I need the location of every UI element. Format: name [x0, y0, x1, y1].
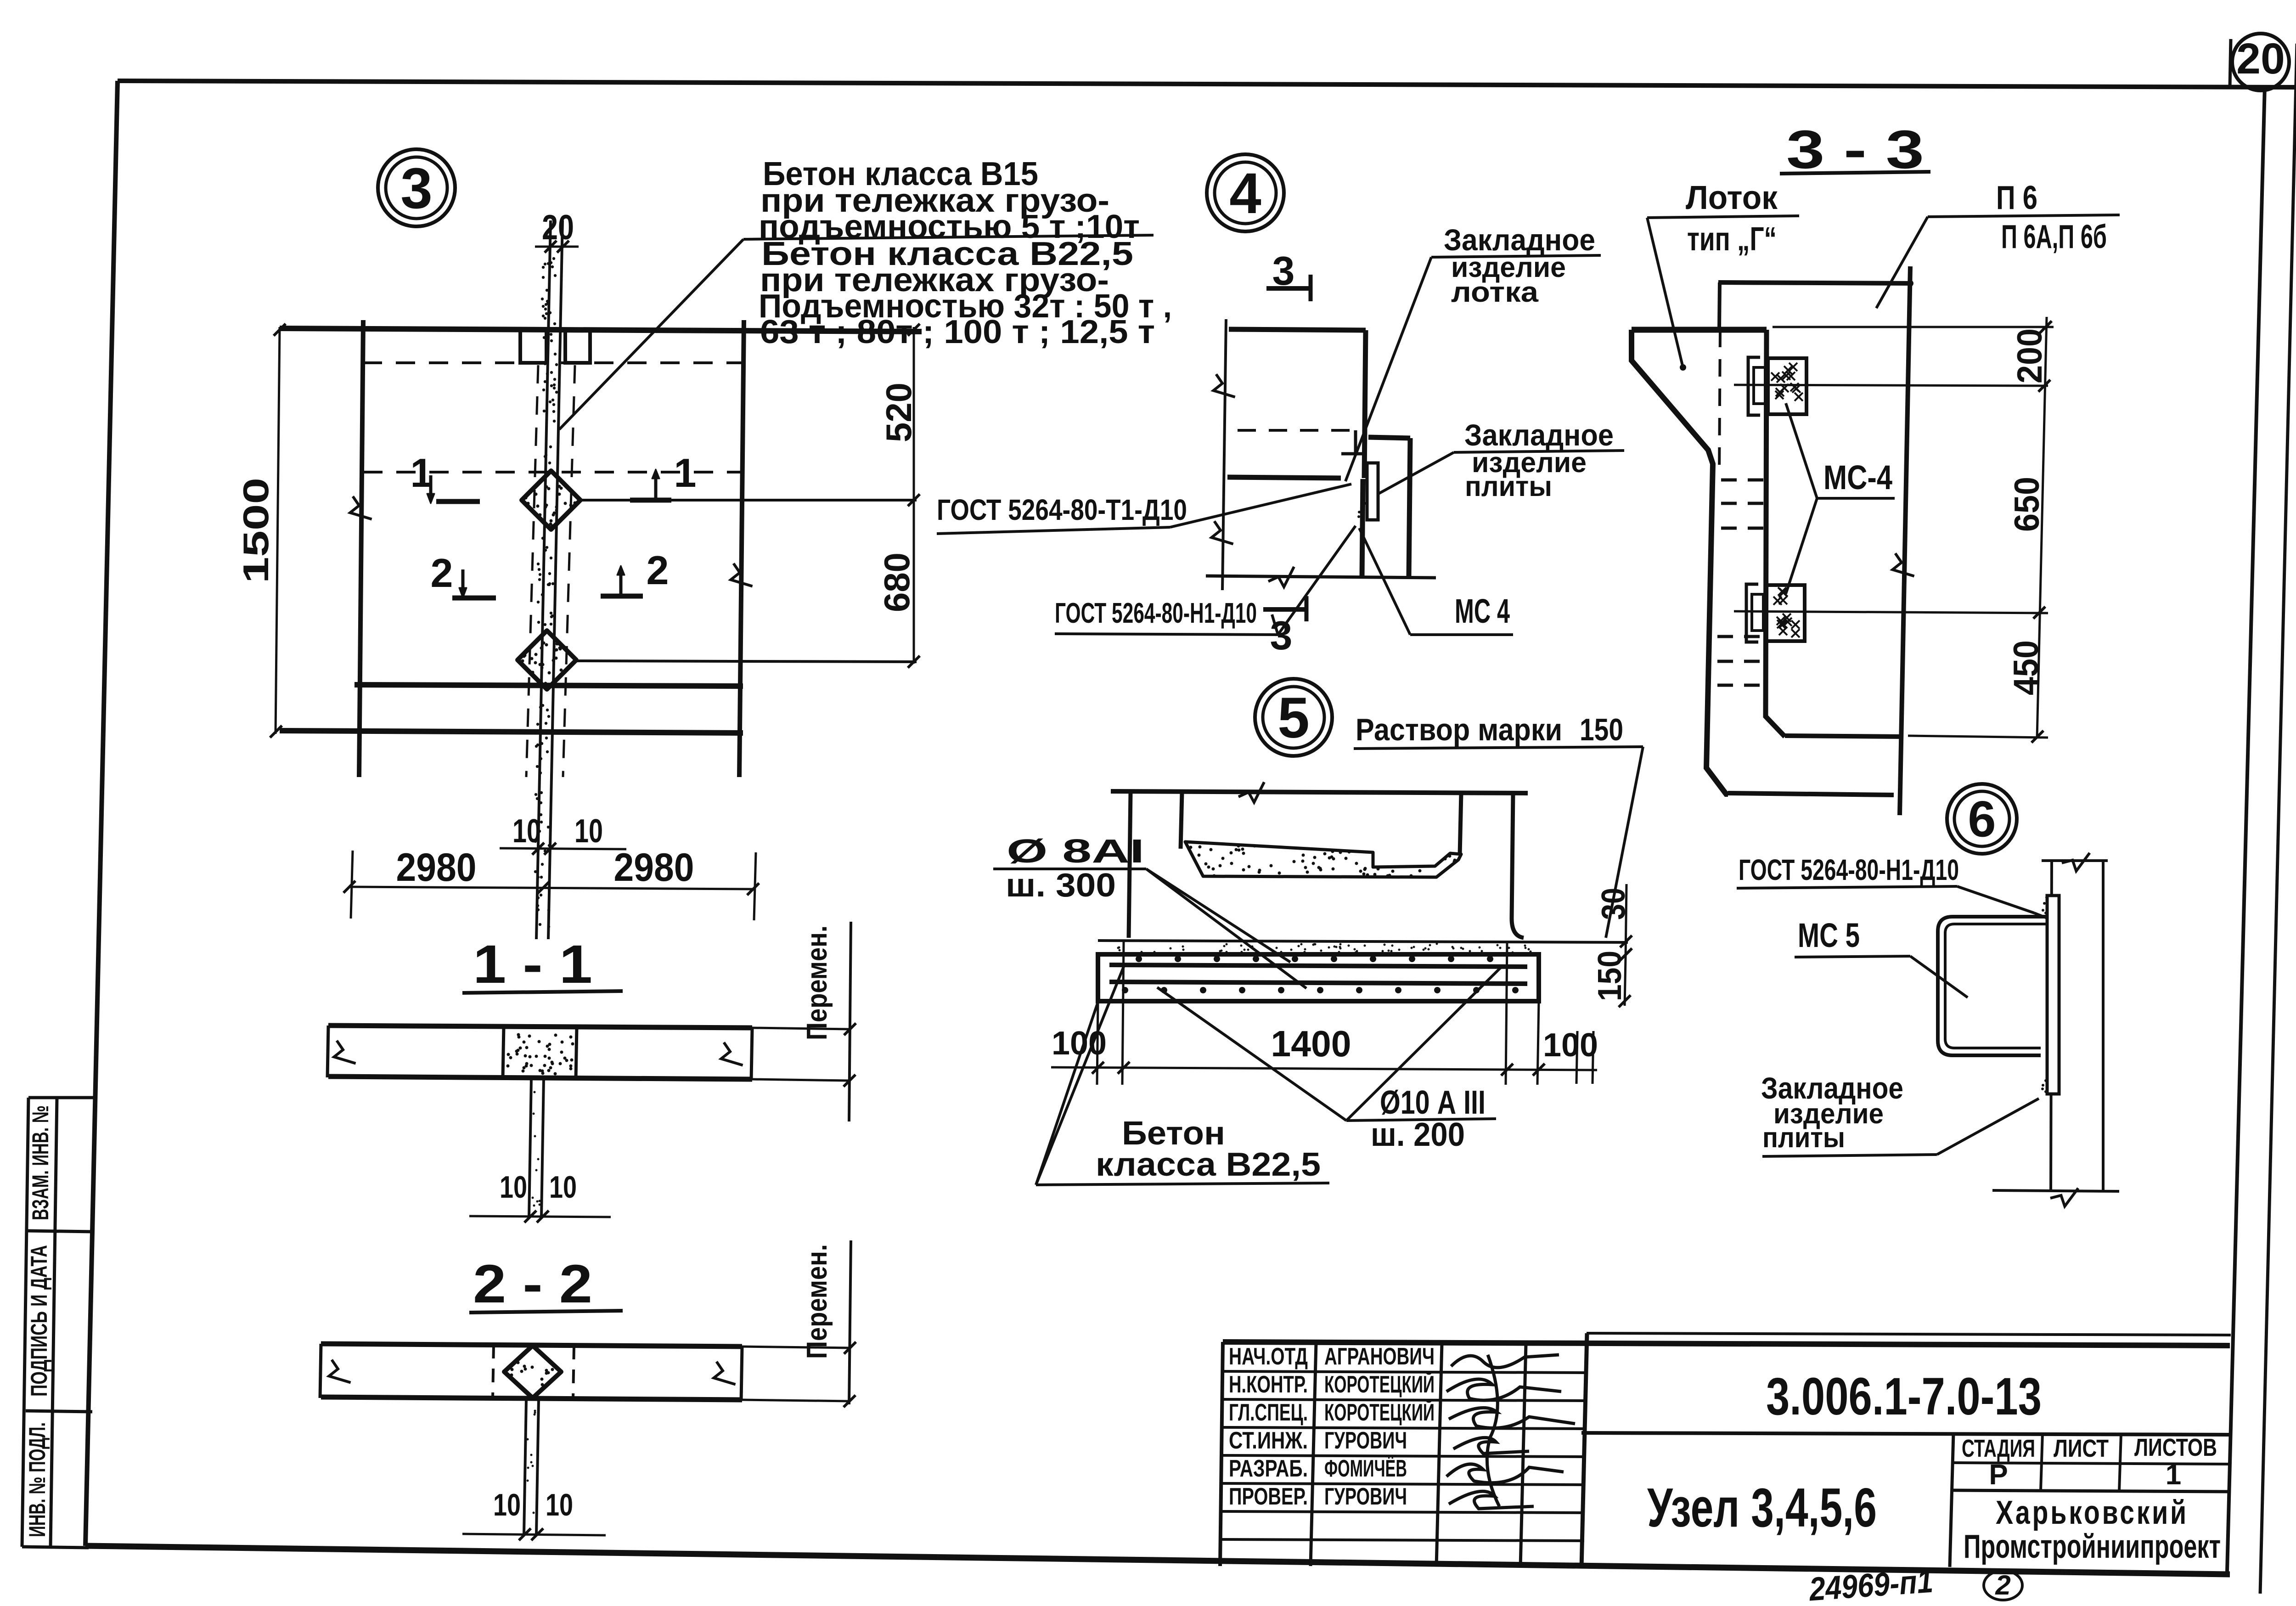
title block left edge	[1220, 1342, 1223, 1566]
svg-text:63 т ; 80т ; 100 т ; 12,5 т: 63 т ; 80т ; 100 т ; 12,5 т	[760, 314, 1155, 350]
svg-text:ГОСТ 5264-80-Н1-Д10: ГОСТ 5264-80-Н1-Д10	[1055, 597, 1257, 629]
section mark 1 right	[630, 498, 671, 503]
svg-text:ш. 300: ш. 300	[1006, 867, 1116, 904]
svg-text:Н.КОНТР.: Н.КОНТР.	[1229, 1371, 1308, 1398]
signature squiggles	[1451, 1355, 1559, 1368]
3-3 dim extension 450 bottom	[1908, 736, 2048, 738]
svg-text:2: 2	[431, 550, 453, 596]
detail 6 circle label	[1947, 784, 2017, 854]
стадия table	[1581, 1433, 2231, 1435]
sheet frame bottom border	[85, 1546, 2230, 1574]
d4 left extension line	[1222, 319, 1226, 590]
svg-text:ГОСТ 5264-80-Н1-Д10: ГОСТ 5264-80-Н1-Д10	[1739, 853, 1959, 886]
d4 slab outline	[1229, 329, 1366, 330]
d5 dim line 100 1400 100	[1051, 1067, 1597, 1070]
svg-text:Перемен.: Перемен.	[801, 1244, 833, 1359]
svg-text:1500: 1500	[236, 478, 276, 583]
svg-text:ГУРОВИЧ: ГУРОВИЧ	[1324, 1427, 1407, 1454]
sheet frame right outer border	[2260, 44, 2296, 1594]
svg-text:ЛИСТ: ЛИСТ	[2054, 1435, 2109, 1462]
svg-text:АГРАНОВИЧ: АГРАНОВИЧ	[1324, 1343, 1435, 1370]
d5 slab outline	[1098, 954, 1539, 1001]
plan bottom edge lower	[280, 731, 743, 733]
svg-text:ПОДПИСЬ И ДАТА: ПОДПИСЬ И ДАТА	[26, 1245, 52, 1397]
joint vertical lines	[536, 220, 551, 939]
svg-text:4: 4	[1229, 162, 1261, 225]
hidden dashed line top	[363, 361, 744, 364]
hidden dashed line mid	[363, 471, 744, 473]
anchor plate rect right	[565, 330, 590, 363]
joint concrete speckle strip	[550, 261, 552, 264]
d4 embed plate	[1367, 463, 1378, 520]
lotok dashed horizontals lower group	[1717, 635, 1761, 638]
svg-text:1 - 1: 1 - 1	[473, 934, 592, 995]
svg-text:ш. 200: ш. 200	[1371, 1116, 1465, 1153]
svg-text:МС-4: МС-4	[1823, 458, 1892, 496]
svg-text:10: 10	[512, 813, 541, 850]
right dim line 520/680	[913, 327, 915, 664]
svg-text:КОРОТЕЦКИЙ: КОРОТЕЦКИЙ	[1324, 1371, 1435, 1398]
П6 panel left upper edge	[1719, 282, 1720, 329]
sheet frame left border	[85, 81, 118, 1546]
line diamond1 to right dim	[580, 499, 917, 502]
2980 dim extension verticals	[351, 851, 353, 919]
svg-text:ИНВ. № ПОДЛ.: ИНВ. № ПОДЛ.	[24, 1422, 50, 1537]
svg-text:3.006.1-7.0-13: 3.006.1-7.0-13	[1766, 1367, 2042, 1426]
svg-text:2980: 2980	[614, 845, 694, 890]
d6 right vertical	[2102, 861, 2105, 1190]
title block signature rows	[1222, 1371, 1584, 1373]
d5 mortar strip 30mm	[1098, 941, 1628, 942]
svg-text:150: 150	[1580, 712, 1623, 747]
3-3 dim line 200/650/450	[2037, 317, 2047, 738]
d6 plate weld marks	[2043, 902, 2046, 905]
d6 plate plane vertical	[2051, 861, 2052, 1190]
lotok dashed horizontals upper group	[1721, 479, 1765, 482]
d5 ground top line	[1111, 791, 1528, 793]
svg-text:200: 200	[2010, 328, 2049, 383]
svg-text:2: 2	[1995, 1570, 2010, 1600]
svg-text:Перемен.: Перемен.	[801, 925, 833, 1040]
d5 lower rebar	[1109, 982, 1527, 984]
svg-text:680: 680	[877, 552, 917, 612]
lotok hidden dashed vertical	[1719, 330, 1720, 475]
svg-text:5: 5	[1277, 686, 1310, 750]
d5 mortar bed speckled	[1185, 842, 1461, 877]
svg-text:ЛИСТОВ: ЛИСТОВ	[2134, 1434, 2217, 1461]
svg-text:КОРОТЕЦКИЙ: КОРОТЕЦКИЙ	[1324, 1399, 1435, 1426]
svg-text:ГОСТ 5264-80-Т1-Д10: ГОСТ 5264-80-Т1-Д10	[937, 493, 1187, 526]
svg-text:тип „Г“: тип „Г“	[1687, 221, 1777, 258]
d4 embed angle	[1354, 430, 1357, 456]
svg-text:10: 10	[546, 1488, 573, 1522]
svg-text:Лоток: Лоток	[1686, 180, 1778, 216]
left margin stamp boxes	[22, 1098, 28, 1547]
d5 transverse bar dots	[1136, 956, 1142, 962]
svg-text:Ø10 А III: Ø10 А III	[1380, 1084, 1486, 1121]
title block outer top	[1223, 1342, 2230, 1346]
d5 upper rebar	[1109, 965, 1527, 967]
sheet frame top border	[118, 81, 2296, 87]
sheet frame right inner border	[2227, 85, 2265, 1572]
svg-text:П 6: П 6	[1996, 180, 2037, 216]
svg-text:2980: 2980	[396, 845, 477, 890]
svg-text:10: 10	[493, 1488, 521, 1522]
svg-text:Раствор марки: Раствор марки	[1356, 712, 1562, 747]
section 1-1 joint below	[529, 1078, 531, 1217]
svg-text:плиты: плиты	[1762, 1122, 1845, 1154]
left dim line 1500	[276, 327, 280, 734]
svg-text:лотка: лотка	[1451, 276, 1539, 308]
svg-text:ПРОВЕР.: ПРОВЕР.	[1229, 1483, 1308, 1510]
3-3 dim extension top	[1773, 326, 2054, 328]
section 2-2 joint below	[524, 1399, 526, 1534]
П6 panel right edge	[1900, 266, 1910, 815]
svg-text:СТАДИЯ: СТАДИЯ	[1962, 1435, 2035, 1462]
svg-text:1: 1	[2166, 1459, 2181, 1491]
svg-text:10: 10	[500, 1170, 527, 1205]
note leader to joint	[559, 239, 743, 429]
svg-text:100: 100	[1543, 1027, 1598, 1064]
svg-text:2 - 2: 2 - 2	[473, 1254, 592, 1314]
svg-text:10: 10	[574, 813, 603, 850]
svg-text:Ø 8АI: Ø 8АI	[1007, 833, 1144, 870]
MC-4 embed upper	[1768, 358, 1806, 414]
d6 bottom horizontal	[1992, 1190, 2119, 1191]
svg-text:450: 450	[2007, 640, 2046, 695]
section 2-2 key diamond	[504, 1346, 561, 1398]
detail 5 circle label	[1255, 679, 1332, 756]
d4 trough wall outline	[1368, 437, 1410, 438]
svg-text:1: 1	[674, 450, 697, 496]
svg-text:плиты: плиты	[1465, 471, 1552, 502]
d6 extension top horizontal	[2042, 859, 2108, 862]
title block top secondary line	[1587, 1333, 2231, 1335]
svg-text:520: 520	[878, 383, 919, 442]
section 2-2 slab band	[321, 1344, 742, 1347]
svg-text:МС 4: МС 4	[1455, 592, 1510, 630]
MC-4 embed lower center line	[1734, 611, 2048, 613]
plan left edge	[359, 320, 363, 777]
svg-text:ФОМИЧЁВ: ФОМИЧЁВ	[1324, 1455, 1407, 1482]
svg-text:СТ.ИНЖ.: СТ.ИНЖ.	[1229, 1427, 1308, 1454]
concrete key diamond 1	[522, 471, 580, 530]
dashed joint flank right	[563, 365, 575, 777]
MC-4 embed lower	[1766, 585, 1805, 641]
title block verticals	[1311, 1343, 1316, 1566]
svg-text:20: 20	[2236, 34, 2285, 83]
svg-text:2: 2	[647, 547, 669, 593]
plan bottom edge upper	[355, 685, 743, 686]
d6 embedded plate	[2047, 896, 2059, 1094]
svg-text:ГЛ.СПЕЦ.: ГЛ.СПЕЦ.	[1229, 1399, 1308, 1426]
svg-text:класса В22,5: класса В22,5	[1096, 1146, 1321, 1183]
d6 MC5 channel	[1938, 917, 2047, 1055]
d5 extension verticals	[1122, 941, 1124, 1085]
section mark 3 bottom	[1263, 607, 1306, 612]
handwriting (2) mark	[1984, 1571, 2022, 1600]
svg-text:П 6А,П 6б: П 6А,П 6б	[2001, 219, 2107, 255]
П6 panel bottom lines	[1785, 736, 1902, 737]
svg-text:Харьковский: Харьковский	[1996, 1494, 2189, 1531]
section 1-1 slab band	[328, 1026, 752, 1028]
svg-text:10: 10	[549, 1170, 577, 1205]
svg-text:ГУРОВИЧ: ГУРОВИЧ	[1324, 1483, 1407, 1510]
detail 4 circle label	[1207, 154, 1284, 231]
lotok type Г outline	[1632, 327, 1767, 333]
concrete key diamond 2	[518, 631, 576, 689]
d4 ground line	[1206, 576, 1436, 578]
MC-4 embed upper center line	[1734, 385, 2048, 386]
dashed joint flank left	[526, 365, 538, 777]
svg-text:ВЗАМ. ИНВ. №: ВЗАМ. ИНВ. №	[28, 1105, 53, 1220]
d4 slab hidden dashed	[1238, 429, 1355, 432]
line diamond2 to right dim	[576, 661, 917, 662]
П6 panel top edge	[1718, 282, 1913, 283]
section 2-2 dashed joint lines	[493, 1345, 494, 1398]
note separator line	[743, 235, 1154, 239]
svg-text:Узел 3,4,5,6: Узел 3,4,5,6	[1647, 1477, 1877, 1538]
svg-text:650: 650	[2008, 477, 2047, 532]
d5 trough left walls	[1129, 792, 1131, 938]
anchor plate rect left	[520, 330, 546, 363]
svg-text:МС 5: МС 5	[1798, 916, 1860, 954]
svg-text:Промстройниипроект: Промстройниипроект	[1964, 1528, 2221, 1565]
plan top edge	[280, 328, 922, 332]
svg-text:Р: Р	[1989, 1459, 2008, 1491]
d5 trough right walls	[1460, 793, 1461, 855]
plan right edge	[739, 320, 744, 777]
svg-text:6: 6	[1968, 791, 1996, 848]
section 1-1 joint fill	[503, 1026, 504, 1078]
svg-text:РАЗРАБ.: РАЗРАБ.	[1229, 1455, 1308, 1482]
svg-text:3: 3	[400, 157, 433, 220]
detail 3 circle label	[378, 149, 455, 226]
section mark 2 right	[601, 594, 643, 599]
svg-text:1400: 1400	[1271, 1023, 1351, 1064]
handwriting 24969-п1	[1807, 1563, 1935, 1606]
svg-text:НАЧ.ОТД: НАЧ.ОТД	[1229, 1343, 1308, 1370]
sheet number circle (20) top right	[2230, 39, 2231, 87]
